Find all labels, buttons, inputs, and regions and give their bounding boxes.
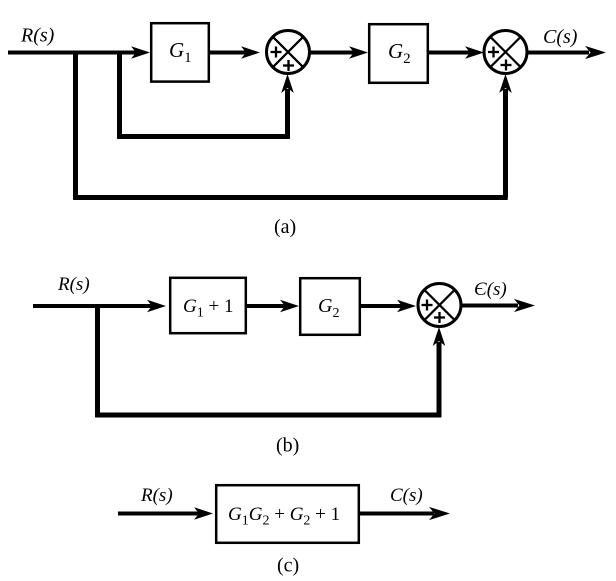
- arrowhead output (b): [514, 299, 535, 312]
- plus sign west of summing junction 3: [422, 300, 433, 311]
- svg-text:Є(s): Є(s): [474, 279, 507, 300]
- wire main input line (b): [33, 304, 154, 308]
- node R(s) input label (b): [57, 274, 90, 295]
- caption (a): [274, 216, 296, 238]
- arrowhead into block G1+1: [147, 300, 166, 313]
- svg-text:G1 + 1: G1 + 1: [183, 296, 233, 321]
- plus sign south of summing junction 3: [434, 312, 445, 323]
- block G1: [151, 23, 209, 81]
- wire G2 to summing junction 2: [428, 51, 471, 55]
- wire output line (c): [359, 512, 434, 516]
- plus sign south of summing junction 1: [283, 60, 294, 71]
- block G2 (b): [300, 278, 360, 335]
- block G1G2+G2+1: [216, 485, 359, 543]
- wire inner feedforward bottom (a): [117, 134, 289, 139]
- arrowhead into summing junction 1: [241, 46, 260, 59]
- wire main input line (a): [8, 51, 137, 55]
- block G1+1: [170, 278, 246, 333]
- summing junction 1 circle: [267, 31, 310, 74]
- arrowhead into bottom of summing junction 3: [433, 327, 446, 346]
- arrowhead into block G1G2+G2+1: [194, 507, 213, 520]
- arrowhead output (c): [429, 507, 450, 520]
- wire outer takeoff vertical (a): [73, 51, 78, 200]
- summing junction 3 circle: [418, 284, 461, 327]
- svg-text:(a): (a): [274, 216, 296, 238]
- node C(s) output label (b): [474, 279, 507, 300]
- svg-text:C(s): C(s): [390, 485, 423, 506]
- node R(s) input label (c): [140, 485, 173, 506]
- wire summing junction 1 to G2: [310, 51, 356, 55]
- plus sign west of summing junction 1: [271, 47, 282, 58]
- caption (b): [276, 435, 299, 457]
- node C(s) output label (a): [543, 26, 578, 48]
- node C(s) output label (c): [390, 485, 423, 506]
- wire G1+1 to G2: [246, 304, 287, 308]
- arrowhead into block G2 (b): [280, 300, 299, 313]
- arrowhead into bottom of summing junction 1: [281, 74, 294, 93]
- wire takeoff vertical (b): [95, 304, 100, 417]
- wire feedback vertical riser (b): [437, 342, 442, 417]
- svg-text:R(s): R(s): [20, 25, 55, 47]
- wire inner feedforward vertical riser (a): [285, 89, 290, 139]
- wire feedback bottom (b): [95, 413, 441, 418]
- wire output line (a): [527, 51, 589, 55]
- arrowhead into summing junction 2: [465, 46, 484, 59]
- wire output line (b): [461, 304, 518, 308]
- arrowhead into summing junction 3: [397, 300, 416, 313]
- node R(s) input label (a): [20, 25, 55, 47]
- caption (c): [277, 555, 299, 577]
- wire input line (c): [118, 512, 201, 516]
- summing junction 2 circle: [484, 31, 527, 74]
- svg-text:(c): (c): [277, 555, 299, 577]
- arrowhead output (a): [585, 46, 606, 59]
- wire G2 to summing junction 3: [360, 304, 404, 308]
- arrowhead into block G1: [131, 46, 150, 59]
- svg-text:(b): (b): [276, 435, 299, 457]
- wire outer feedforward vertical riser (a): [503, 89, 508, 198]
- plus sign west of summing junction 2: [488, 47, 499, 58]
- arrowhead into bottom of summing junction 2: [499, 74, 512, 93]
- svg-text:C(s): C(s): [543, 26, 578, 48]
- block G2: [369, 24, 428, 83]
- svg-text:R(s): R(s): [140, 485, 173, 506]
- plus sign south of summing junction 2: [501, 60, 512, 71]
- wire inner takeoff vertical (a): [117, 51, 122, 139]
- arrowhead into block G2: [349, 46, 368, 59]
- svg-text:R(s): R(s): [57, 274, 90, 295]
- wire outer feedforward bottom (a): [73, 195, 508, 200]
- wire G1 to summing junction 1: [209, 51, 247, 55]
